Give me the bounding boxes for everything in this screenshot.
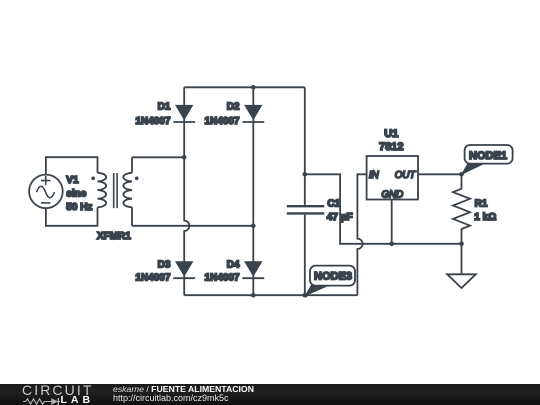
node junction top rail / D2 xyxy=(251,85,256,90)
wire V1 bottom loop xyxy=(46,207,98,226)
wire to ground symbol xyxy=(461,244,463,274)
wire D1-D3 column with hop over secondary bottom wire xyxy=(184,87,189,295)
wire secondary top xyxy=(132,157,184,173)
svg-text:IN: IN xyxy=(369,170,380,181)
diode D3 xyxy=(135,259,195,283)
svg-text:1N4007: 1N4007 xyxy=(204,273,239,284)
node junction U1 GND / ground rail xyxy=(389,242,394,247)
wire D2-D4 column xyxy=(252,87,254,295)
svg-text:D2: D2 xyxy=(227,101,240,112)
footer bar xyxy=(0,384,540,405)
resistor R1 xyxy=(453,174,496,244)
node junction R1 / ground rail xyxy=(459,242,464,247)
diode D4 xyxy=(204,259,264,283)
svg-text:C1: C1 xyxy=(327,199,340,210)
node NODE1 flag xyxy=(462,145,513,174)
wire ground branch from C1 to ground rail xyxy=(305,174,462,244)
svg-text:NODE1: NODE1 xyxy=(469,150,507,162)
attribution text xyxy=(113,384,254,394)
wire C1 column upper xyxy=(304,87,306,205)
wire C1 column lower xyxy=(304,215,306,296)
svg-text:1N4007: 1N4007 xyxy=(135,116,170,127)
node NODE3 flag xyxy=(303,266,355,298)
wire top rail xyxy=(184,86,305,88)
svg-text:GND: GND xyxy=(381,189,403,200)
wire secondary bottom xyxy=(132,207,253,226)
wire U1 OUT to R1 xyxy=(418,173,462,175)
svg-text:OUT: OUT xyxy=(395,170,417,181)
wire V1 top loop xyxy=(46,157,98,174)
wire U1 IN down to bottom rail with hop over ground rail xyxy=(357,174,366,295)
svg-text:NODE3: NODE3 xyxy=(314,271,352,283)
svg-text:7812: 7812 xyxy=(379,141,403,153)
ground xyxy=(447,274,476,288)
capacitor C1 xyxy=(287,199,353,223)
diode D1 xyxy=(135,101,195,127)
svg-text:R1: R1 xyxy=(475,199,488,210)
svg-text:1 kΩ: 1 kΩ xyxy=(474,212,496,223)
svg-text:1N4007: 1N4007 xyxy=(204,116,239,127)
svg-text:sine: sine xyxy=(66,188,86,199)
svg-text:U1: U1 xyxy=(384,128,398,140)
svg-text:XFMR1: XFMR1 xyxy=(97,231,131,242)
svg-text:D1: D1 xyxy=(158,101,171,112)
voltage source V1 xyxy=(29,175,92,213)
svg-text:V1: V1 xyxy=(66,175,79,186)
svg-text:D4: D4 xyxy=(227,259,240,270)
wire bottom rail xyxy=(184,294,357,296)
node junction C1 column / ground branch xyxy=(303,172,308,177)
svg-text:50 Hz: 50 Hz xyxy=(66,202,92,213)
node junction secondary top / D1 column xyxy=(182,155,187,160)
transformer XFMR1 xyxy=(91,173,138,242)
CircuitLab logo xyxy=(22,384,93,397)
node junction secondary bottom / D2 column xyxy=(251,224,256,229)
diode D2 xyxy=(204,101,264,127)
svg-text:D3: D3 xyxy=(158,259,171,270)
wire U1 GND pin xyxy=(391,200,393,244)
node junction D4 / bottom rail xyxy=(251,293,256,298)
op-amp U1 7812 regulator box xyxy=(367,128,418,200)
node junction OUT / R1 / NODE1 xyxy=(459,172,464,177)
node junction C1 / bottom rail xyxy=(303,293,308,298)
svg-text:1N4007: 1N4007 xyxy=(135,273,170,284)
